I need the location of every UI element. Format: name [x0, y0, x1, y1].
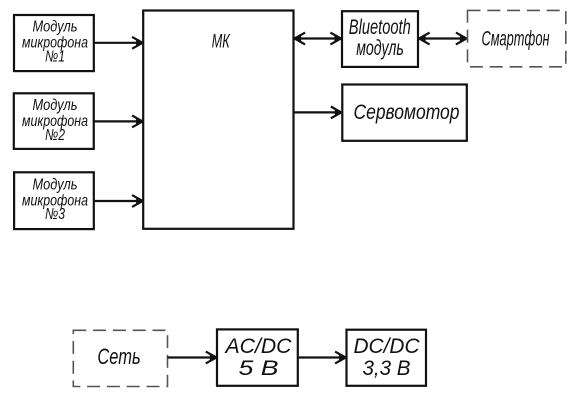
svg-text:Модуль: Модуль — [33, 177, 78, 194]
svg-text:№1: №1 — [45, 49, 65, 66]
svg-text:Bluetooth: Bluetooth — [349, 16, 411, 39]
svg-text:3,3 В: 3,3 В — [363, 357, 411, 380]
svg-text:AC/DC: AC/DC — [223, 335, 292, 358]
wire: MK to Bluetooth module (bidirectional) — [295, 33, 341, 45]
block: microphone module 3 — [14, 172, 94, 229]
svg-text:№2: №2 — [45, 127, 65, 144]
block: Bluetooth module — [342, 11, 418, 67]
wire: Mains to AC/DC — [168, 352, 217, 364]
wire: mic1 to MK — [94, 37, 143, 49]
svg-text:5 В: 5 В — [239, 357, 279, 380]
svg-text:DC/DC: DC/DC — [354, 335, 421, 358]
svg-text:МК: МК — [212, 31, 231, 53]
wire: AC/DC to DC/DC — [299, 352, 346, 364]
wire: mic3 to MK — [94, 195, 143, 207]
block: MK microcontroller — [143, 11, 293, 229]
svg-text:Модуль: Модуль — [33, 97, 78, 114]
block: DC/DC 3.3V converter — [347, 330, 427, 386]
block: microphone module 1 — [14, 15, 94, 71]
wire: mic2 to MK — [94, 116, 143, 128]
block: AC/DC 5V converter — [217, 329, 298, 385]
block: microphone module 2 — [14, 93, 94, 149]
wire: MK to Servomotor — [295, 107, 342, 119]
wire: Bluetooth module to Smartphone (bidirectional) — [419, 33, 466, 45]
svg-text:№3: №3 — [45, 206, 65, 223]
svg-text:Модуль: Модуль — [33, 19, 78, 36]
svg-text:модуль: модуль — [356, 37, 404, 60]
block: Smartphone (dashed) — [468, 10, 566, 66]
block: Servomotor — [342, 85, 467, 141]
svg-text:Смартфон: Смартфон — [482, 28, 550, 51]
svg-text:Сеть: Сеть — [97, 344, 140, 369]
block: Mains supply (dashed) — [73, 330, 167, 386]
svg-text:Сервомотор: Сервомотор — [354, 101, 460, 124]
